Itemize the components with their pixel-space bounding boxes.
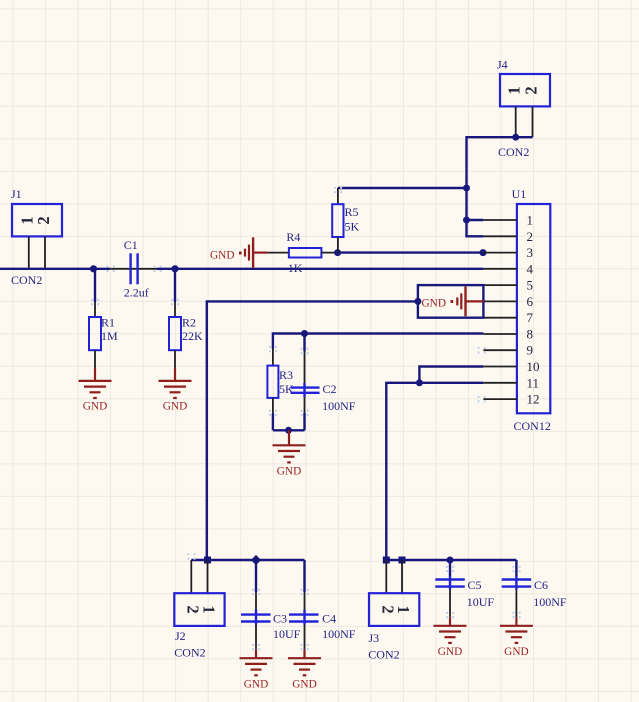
svg-text:R5: R5: [345, 205, 359, 219]
svg-text:R3: R3: [279, 368, 293, 382]
node pin10/11 junction: [416, 379, 423, 386]
U1 pins 1-12: [483, 220, 517, 399]
wire main net right segment to pin 4: [157, 268, 483, 270]
node C2 top junction: [301, 330, 308, 337]
capacitor C2: [291, 334, 356, 431]
node pin3 junction: [480, 249, 487, 256]
svg-text:10: 10: [527, 359, 540, 374]
svg-text:2: 2: [521, 86, 540, 94]
svg-text:GND: GND: [504, 646, 528, 658]
ground power port at pin 6: [422, 287, 484, 317]
wire R3/C2 to pin 8: [273, 334, 484, 350]
pin U1.7: [483, 317, 517, 319]
node J3 pin1 junction (square): [399, 557, 406, 564]
pin C1 leads: [110, 268, 157, 270]
connector U1: [512, 187, 551, 433]
pin J3.1: [401, 560, 403, 593]
svg-text:CON12: CON12: [514, 419, 551, 433]
pin J4.2: [532, 106, 534, 137]
wire R3/C2 bottom node: [273, 429, 305, 431]
pin J4.1: [515, 106, 517, 137]
svg-text:U1: U1: [512, 187, 527, 201]
resistor R5: [332, 188, 359, 253]
ground under R3/C2: [273, 430, 306, 477]
pin U1.3: [483, 252, 517, 254]
node R5/J4 junction: [463, 185, 470, 192]
ground under C3: [240, 650, 273, 691]
capacitor C5: [435, 560, 494, 617]
resistor R4: [286, 230, 321, 275]
svg-text:4: 4: [527, 261, 534, 276]
svg-text:1M: 1M: [101, 329, 118, 343]
capacitor C4: [289, 560, 356, 650]
wire node to pin 3: [338, 251, 484, 253]
wire pin11 to J3: [386, 383, 483, 560]
svg-text:CON2: CON2: [174, 646, 205, 660]
ground under C5: [434, 617, 467, 658]
svg-text:10UF: 10UF: [273, 627, 301, 641]
pin J1.1: [28, 236, 30, 268]
svg-text:GND: GND: [210, 250, 234, 262]
connector J1: [11, 187, 62, 287]
connector J4: [497, 58, 550, 159]
wire R4 to node: [321, 252, 337, 254]
svg-text:GND: GND: [438, 646, 462, 658]
svg-text:1: 1: [527, 213, 534, 228]
node GND box junction: [414, 298, 421, 305]
svg-text:GND: GND: [83, 401, 107, 413]
pin U1.2: [483, 235, 517, 237]
svg-text:GND: GND: [163, 401, 187, 413]
wire GND to R4: [268, 252, 289, 254]
svg-text:9: 9: [527, 343, 534, 358]
svg-text:GND: GND: [292, 679, 316, 691]
svg-text:R4: R4: [286, 230, 300, 244]
wire pin10 branch: [419, 367, 483, 383]
ground under C6: [500, 617, 533, 658]
svg-text:1: 1: [200, 605, 219, 613]
svg-text:CON2: CON2: [368, 648, 399, 662]
pin J1.2: [44, 236, 46, 268]
svg-text:100NF: 100NF: [322, 399, 356, 413]
svg-text:5K: 5K: [345, 220, 360, 234]
ground power port at R4 left: [210, 237, 268, 268]
node R2 junction: [171, 265, 178, 272]
svg-text:11: 11: [527, 375, 540, 390]
wire loop pins 5-6-7 GND box: [418, 285, 484, 318]
node pin1 junction: [463, 217, 470, 224]
capacitor C6: [502, 560, 567, 617]
svg-text:2.2uf: 2.2uf: [124, 286, 149, 300]
pin U1.5: [483, 284, 517, 286]
svg-text:22K: 22K: [182, 329, 203, 343]
capacitor C3: [241, 560, 301, 650]
pin U1.4: [483, 268, 517, 270]
svg-text:100NF: 100NF: [533, 595, 567, 609]
svg-text:2: 2: [34, 216, 53, 224]
svg-text:8: 8: [527, 327, 534, 342]
svg-text:2: 2: [527, 229, 534, 244]
svg-text:C1: C1: [124, 238, 138, 252]
ground under C4: [288, 650, 321, 691]
svg-text:6: 6: [527, 294, 534, 309]
wire R5 top to J4 vertical: [338, 187, 467, 189]
resistor R1: [89, 269, 118, 368]
svg-text:3: 3: [527, 245, 534, 260]
pin J2.2: [190, 560, 192, 593]
resistor R3: [267, 349, 294, 430]
svg-text:C2: C2: [323, 382, 337, 396]
svg-text:1K: 1K: [288, 261, 303, 275]
svg-text:J4: J4: [497, 58, 508, 72]
node J2 pin junction (square): [204, 557, 211, 564]
wire J3 top node: [386, 559, 516, 561]
pin U1.11: [483, 382, 517, 384]
node J4 pin junction: [512, 134, 519, 141]
wire J2 top node: [191, 559, 304, 561]
svg-text:1: 1: [394, 605, 413, 613]
connection point markers: [91, 187, 521, 650]
svg-text:J3: J3: [369, 631, 380, 645]
svg-text:J2: J2: [175, 629, 186, 643]
capacitor C1: [124, 238, 149, 300]
svg-text:C3: C3: [273, 612, 287, 626]
svg-text:C6: C6: [534, 578, 548, 592]
svg-text:100NF: 100NF: [322, 627, 356, 641]
svg-text:GND: GND: [422, 298, 446, 310]
node J3 pin2 junction (square): [383, 557, 390, 564]
ground under R1: [79, 368, 112, 413]
connector J2: [174, 593, 224, 659]
svg-text:10UF: 10UF: [467, 595, 495, 609]
svg-text:C5: C5: [468, 578, 482, 592]
svg-text:7: 7: [527, 310, 534, 325]
resistor R2: [169, 269, 203, 368]
node C3 junction (diamond): [251, 555, 261, 565]
pin U1.8: [483, 333, 517, 335]
pin U1.10: [483, 366, 517, 368]
svg-text:CON2: CON2: [11, 273, 42, 287]
ground under R2: [159, 368, 192, 413]
pin J3.2: [385, 560, 387, 593]
svg-text:2: 2: [184, 605, 203, 613]
pin U1.6: [483, 300, 517, 302]
wire main net left segment: [0, 268, 110, 270]
node R1 junction: [90, 265, 97, 272]
node C5 junction: [447, 557, 454, 564]
svg-text:C4: C4: [322, 612, 336, 626]
svg-text:CON2: CON2: [498, 145, 529, 159]
svg-text:R1: R1: [101, 316, 115, 330]
node R5 bottom junction: [334, 249, 341, 256]
svg-text:12: 12: [527, 392, 540, 407]
svg-text:GND: GND: [277, 466, 301, 478]
pin J2.1: [207, 560, 209, 593]
wire to pin 1: [467, 219, 484, 221]
wire J4 to U1 vertical: [467, 137, 533, 236]
connector J3: [368, 593, 419, 661]
svg-text:R2: R2: [182, 316, 196, 330]
svg-text:GND: GND: [244, 679, 268, 691]
pin U1.9: [483, 349, 517, 351]
svg-text:5: 5: [527, 278, 534, 293]
wire GND box to J2: [207, 301, 418, 560]
pin U1.1: [483, 219, 517, 221]
pin U1.12: [483, 398, 517, 400]
svg-text:J1: J1: [11, 187, 22, 201]
U1 pin numbers: [527, 213, 540, 407]
node R3/C2 bottom junction: [285, 427, 292, 434]
